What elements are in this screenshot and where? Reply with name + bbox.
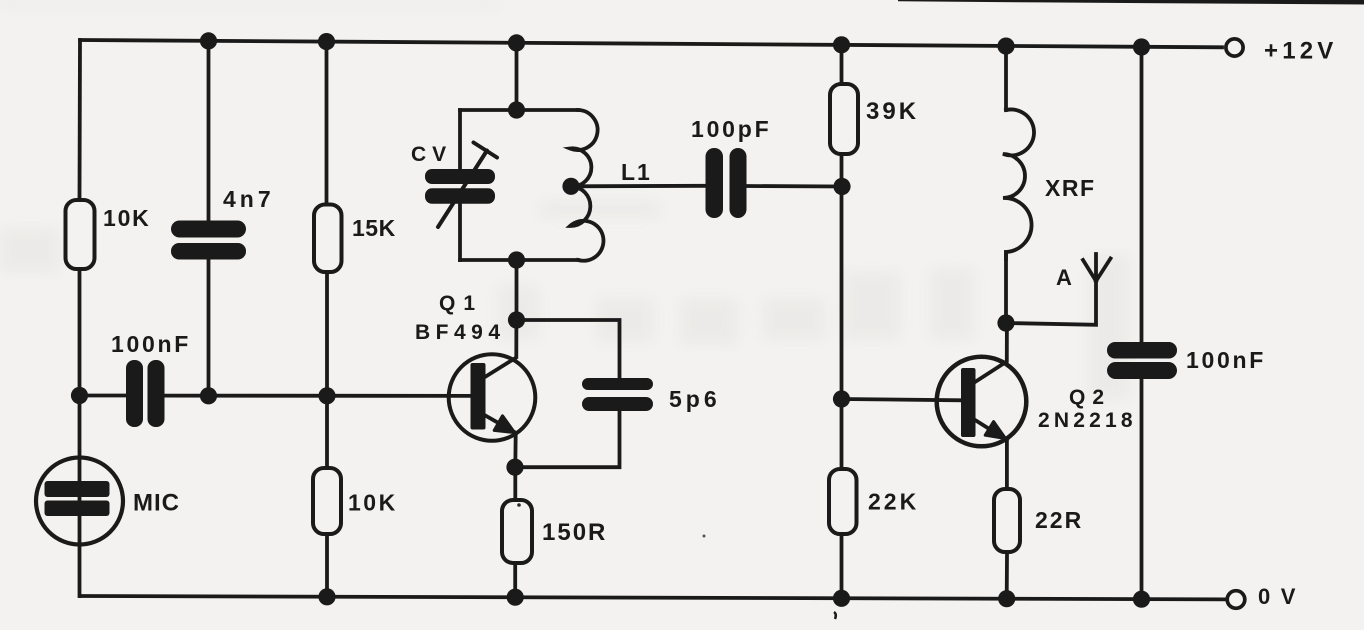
tank top wire	[460, 108, 578, 112]
wire 15K branch top	[325, 42, 329, 203]
speck near 150R	[517, 503, 521, 507]
scan artifact top edge	[898, 0, 1364, 5]
node tank top	[508, 101, 525, 118]
wire bottom rail 0V	[80, 596, 1224, 599]
svg-text:0V: 0V	[1258, 584, 1306, 609]
inductor XRF coil	[1003, 109, 1034, 259]
svg-text:+12V: +12V	[1264, 38, 1338, 65]
wire Q2 base	[842, 399, 962, 400]
wire 100nF to Q1 base	[164, 394, 471, 398]
svg-text:15K: 15K	[352, 215, 396, 241]
resistor 22R	[994, 489, 1020, 552]
svg-text:100nF: 100nF	[111, 331, 191, 357]
node rail 15K	[318, 33, 335, 50]
capacitor 4n7 plates	[171, 221, 246, 260]
wire 39K to 100pF node	[840, 156, 844, 187]
capacitor 5p6 plates	[582, 378, 653, 411]
svg-text:22R: 22R	[1035, 507, 1083, 533]
svg-text:10K: 10K	[348, 490, 398, 516]
svg-text:BF494: BF494	[415, 321, 506, 344]
wire 5p6 branch top	[517, 320, 620, 379]
svg-text:CV: CV	[411, 143, 452, 166]
wire rail to XRF	[1004, 46, 1008, 110]
transistor Q1 emitter lead	[481, 413, 516, 433]
node rail 4n7	[200, 32, 217, 49]
wire Q1 emitter node to 150R	[513, 467, 517, 498]
wire 15K to audio node	[325, 274, 329, 396]
resistor 150R	[502, 500, 532, 563]
node bottom 100nF	[1133, 591, 1150, 608]
wire 4n7 branch top	[207, 41, 211, 222]
wire 22R to bottom rail	[1005, 554, 1009, 599]
terminal 0V	[1227, 591, 1245, 609]
svg-text:100pF: 100pF	[691, 116, 771, 142]
wire 5p6 branch bottom	[515, 411, 620, 468]
antenna symbol	[1083, 254, 1111, 281]
resistor 10K bottom	[313, 468, 341, 534]
tank bottom wire	[460, 258, 578, 262]
scan artifact comma	[834, 612, 836, 619]
svg-text:39K: 39K	[866, 98, 919, 125]
wire L1 tap to 100pF	[571, 184, 706, 188]
wire Q2 emitter to 22R	[1005, 440, 1009, 487]
svg-text:A: A	[1056, 265, 1072, 290]
wire left column mid (R1 to audio node)	[78, 271, 82, 396]
speck below 5p6	[703, 535, 706, 538]
svg-text:L1: L1	[621, 159, 652, 185]
node Q1 emitter	[506, 459, 523, 476]
transistor Q2 emitter lead	[974, 419, 1007, 440]
node bottom 10K	[318, 588, 335, 605]
svg-text:4n7: 4n7	[223, 186, 275, 212]
resistor 15K	[314, 205, 342, 273]
node 100pF 39K	[833, 178, 850, 195]
wire audio node to 100nF cap	[80, 394, 128, 398]
wire 100nF right to bottom rail	[1140, 378, 1144, 599]
svg-text:5p6: 5p6	[669, 386, 721, 412]
wire 22K to bottom rail	[840, 536, 844, 598]
CV trimmer arrow	[438, 143, 497, 228]
node rail XRF	[997, 38, 1014, 55]
node rail tank	[508, 34, 525, 51]
node tank bottom	[508, 251, 525, 268]
wire antenna node right	[1006, 281, 1096, 325]
capacitor 100nF right plates	[1107, 342, 1177, 379]
microphone MIC	[36, 458, 123, 545]
transistor Q1 emitter arrow	[494, 416, 514, 433]
wire Q1 emitter down	[513, 433, 517, 467]
svg-text:2N2218: 2N2218	[1038, 409, 1137, 432]
node rail 100nF	[1133, 38, 1150, 55]
faint scan ghosting	[0, 0, 1130, 400]
wire left column top (rail to R1)	[78, 40, 82, 198]
svg-text:10K: 10K	[103, 205, 151, 231]
wire tank bottom to Q1 collector node	[515, 260, 519, 320]
svg-text:100nF: 100nF	[1186, 347, 1266, 373]
node L1 tap	[562, 178, 579, 195]
inductor L1 coil	[570, 110, 603, 261]
capacitor CV plates	[425, 169, 495, 204]
svg-text:Q1: Q1	[439, 292, 483, 315]
capacitor 100nF left plates	[126, 360, 165, 427]
node bottom 22R	[998, 590, 1015, 607]
capacitor 100pF plates	[706, 148, 747, 218]
wire 100pF node to Q2 base node	[840, 187, 844, 400]
svg-text:Q2: Q2	[1069, 386, 1111, 409]
wire rail to 100nF right	[1140, 47, 1144, 343]
node audio left	[71, 387, 88, 404]
wire 100pF to 39K node	[746, 184, 842, 188]
svg-text:150R: 150R	[542, 519, 607, 546]
node Q1 collector	[508, 311, 525, 328]
node XRF bottom	[997, 314, 1014, 331]
resistor R1 10K	[66, 200, 95, 269]
wire Q2 base node to 22K	[840, 399, 844, 467]
resistor 39K	[830, 84, 858, 154]
wire 150R to bottom rail	[513, 565, 517, 597]
tank left lower	[458, 204, 462, 260]
node bottom 150R	[507, 589, 524, 606]
transistor Q1 collector lead	[483, 320, 517, 379]
tank left upper	[458, 110, 462, 170]
node rail 39K	[833, 36, 850, 53]
transistor Q2 emitter arrow	[985, 422, 1005, 439]
svg-text:MIC: MIC	[133, 490, 180, 517]
terminal +12V	[1226, 39, 1243, 56]
svg-text:XRF: XRF	[1045, 175, 1096, 201]
transistor Q1 base bar	[471, 363, 486, 430]
node bottom 22K	[833, 590, 850, 607]
svg-text:22K: 22K	[868, 489, 919, 515]
transistor Q2 circle	[937, 357, 1027, 447]
wire rail to 39K	[840, 45, 844, 82]
wire left column through MIC to bottom rail	[78, 396, 82, 597]
node Q2 base	[833, 390, 850, 407]
transistor Q2 collector lead	[974, 323, 1007, 383]
node audio 15K	[318, 387, 335, 404]
wire rail to tank top	[515, 43, 519, 110]
node audio 4n7	[200, 387, 217, 404]
wire top rail +12V	[80, 40, 1222, 47]
wire 4n7 branch bottom	[207, 258, 211, 396]
wire XRF to antenna node	[1004, 252, 1008, 323]
transistor Q2 base bar	[961, 368, 976, 437]
wire audio node to R4 10K	[325, 396, 329, 466]
wire R4 to bottom rail	[325, 536, 329, 597]
transistor Q1 circle	[449, 354, 536, 441]
resistor 22K	[829, 469, 857, 534]
